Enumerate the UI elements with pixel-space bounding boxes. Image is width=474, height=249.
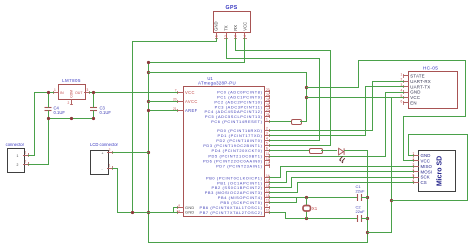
svg-text:ATmega328P-PU: ATmega328P-PU bbox=[198, 81, 236, 86]
wire SD MISO (horizontal) bbox=[280, 166, 414, 168]
GPS connector SV1 box bbox=[214, 12, 251, 33]
wire SD GND loop left (vertical) bbox=[408, 134, 410, 156]
svg-text:12: 12 bbox=[266, 157, 270, 161]
svg-text:1: 1 bbox=[25, 151, 27, 155]
Micro SD pin 3 stub bbox=[413, 166, 419, 168]
junction LCD pin2 bbox=[147, 151, 150, 154]
U1 pin 27 stub bbox=[264, 111, 270, 113]
capacitor C3 symbol bbox=[90, 108, 97, 111]
wire +5V right vertical bbox=[306, 72, 308, 122]
wire LM7805 IN (horizontal) bbox=[34, 92, 54, 94]
junction GND rail left bbox=[147, 211, 150, 214]
wire U1 PB3 (horizontal) bbox=[269, 192, 298, 194]
svg-text:22uF: 22uF bbox=[356, 189, 366, 194]
capacitor C2 lead bbox=[361, 218, 368, 220]
svg-text:GND: GND bbox=[214, 21, 219, 30]
svg-text:4: 4 bbox=[243, 35, 247, 37]
svg-text:PB7 (PCINT7XTAL2TOSC2): PB7 (PCINT7XTAL2TOSC2) bbox=[199, 210, 262, 215]
wire +5V to loop (horizontal) bbox=[306, 87, 359, 89]
capacitor C3 leads bbox=[93, 92, 95, 119]
HC-05 pin 2 stub bbox=[403, 81, 409, 83]
wire LM7805 OUT to U1 VCC (horizontal +5V) bbox=[89, 92, 178, 94]
svg-text:LM7805: LM7805 bbox=[62, 78, 81, 83]
Micro SD card module box bbox=[419, 151, 456, 192]
svg-text:SCK: SCK bbox=[421, 175, 430, 180]
wire LCD pin1 to GND rail (vertical) bbox=[117, 168, 119, 213]
wire GND rail upper (horizontal) bbox=[117, 212, 178, 214]
Micro SD pin 1 stub bbox=[413, 155, 419, 157]
U1 pin 9 stub bbox=[264, 207, 270, 209]
svg-text:STATE: STATE bbox=[410, 74, 425, 79]
junction C3 top on +5V bbox=[92, 91, 95, 94]
svg-text:VCC: VCC bbox=[421, 158, 430, 163]
svg-text:3: 3 bbox=[87, 88, 89, 92]
junction +5V right b bbox=[305, 96, 308, 99]
svg-text:RX: RX bbox=[233, 25, 238, 31]
connector pin 2 stub bbox=[23, 164, 29, 166]
wire HC-05 UART-TX (horizontal) bbox=[365, 86, 404, 88]
bluetooth module HC-05 box bbox=[409, 72, 458, 109]
wire GPS TX (horizontal) bbox=[226, 58, 320, 60]
U1 pin 24 stub bbox=[264, 96, 270, 98]
svg-text:5: 5 bbox=[413, 174, 415, 178]
wire U1 PB1 (horizontal) bbox=[269, 182, 287, 184]
wire CS (vertical) bbox=[297, 182, 299, 193]
wire MOSI (vertical) bbox=[286, 171, 288, 183]
GPS pin 1 stub bbox=[216, 32, 218, 39]
HC-05 pin 5 stub bbox=[403, 97, 409, 99]
LED D1 bbox=[339, 148, 345, 163]
wire resistor R1 to +5V bbox=[300, 121, 307, 123]
junction GND bus corner bbox=[366, 231, 369, 234]
capacitor C1 symbol bbox=[358, 194, 362, 201]
svg-text:28: 28 bbox=[266, 113, 270, 117]
wire LED cathode (horizontal) bbox=[344, 150, 368, 152]
svg-text:2: 2 bbox=[17, 163, 19, 167]
svg-text:1: 1 bbox=[266, 118, 268, 122]
wire U1 PD2 (horizontal) bbox=[269, 140, 320, 142]
wire SD GND (horizontal) bbox=[408, 155, 414, 157]
svg-text:5: 5 bbox=[266, 142, 268, 146]
U1 pin 16 stub bbox=[264, 187, 270, 189]
wire U1 PD3 (horizontal) bbox=[269, 145, 331, 147]
wire U1 pin22 GND (horizontal) bbox=[173, 212, 178, 214]
U1 pin 25 stub bbox=[264, 101, 270, 103]
svg-text:2: 2 bbox=[266, 127, 268, 131]
svg-text:CS: CS bbox=[421, 180, 427, 185]
capacitor C4 leads bbox=[48, 92, 50, 119]
svg-text:+: + bbox=[102, 151, 104, 155]
wire U1 pin8 GND (vertical) bbox=[173, 207, 175, 213]
svg-text:27: 27 bbox=[266, 108, 270, 112]
HC-05 pin 3 stub bbox=[403, 86, 409, 88]
GPS pin 2 stub bbox=[226, 32, 228, 39]
svg-text:TX: TX bbox=[224, 25, 229, 31]
U1 pin 28 stub bbox=[264, 116, 270, 118]
U1 pin 23 stub bbox=[264, 91, 270, 93]
U1 pin 8 stub bbox=[177, 207, 184, 209]
svg-text:23: 23 bbox=[266, 88, 270, 92]
U1 pin 6 stub bbox=[264, 150, 270, 152]
svg-text:1: 1 bbox=[401, 72, 403, 76]
svg-text:2: 2 bbox=[109, 148, 111, 152]
wire LCD pin2 (horizontal) bbox=[112, 152, 149, 154]
svg-text:EN: EN bbox=[410, 101, 417, 106]
svg-text:GND: GND bbox=[185, 210, 195, 215]
wire U1 PD4 to resistor bbox=[269, 150, 310, 152]
wire +5V loop top (horizontal) bbox=[358, 60, 466, 62]
svg-text:11: 11 bbox=[266, 152, 270, 156]
svg-text:VCC: VCC bbox=[185, 90, 195, 95]
wire SD GND loop right (vertical) bbox=[467, 134, 469, 201]
svg-text:LCD connector: LCD connector bbox=[90, 142, 119, 147]
U1 pin 11 stub bbox=[264, 156, 270, 158]
capacitor C1 lead bbox=[361, 197, 368, 199]
wire HC-05 GND (horizontal) bbox=[385, 92, 404, 94]
svg-text:4: 4 bbox=[401, 89, 403, 93]
svg-text:22uF: 22uF bbox=[356, 209, 366, 214]
wire GND bus (horizontal right) bbox=[391, 200, 468, 202]
svg-text:0.1UF: 0.1UF bbox=[100, 110, 112, 115]
Micro SD pin 6 stub bbox=[413, 182, 419, 184]
svg-text:2: 2 bbox=[224, 35, 228, 37]
svg-text:UART-RX: UART-RX bbox=[410, 79, 431, 84]
wire GND bottom rail (horizontal) bbox=[148, 242, 368, 244]
wire LM7805 GND rail (horizontal) bbox=[48, 118, 94, 120]
wire XTAL2 (vertical) bbox=[285, 212, 287, 219]
svg-text:2: 2 bbox=[25, 160, 27, 164]
LM7805 pin 3 (OUT) stub bbox=[84, 92, 90, 94]
svg-text:4: 4 bbox=[266, 137, 268, 141]
U1 pin 10 stub bbox=[264, 212, 270, 214]
wire +5V to HC-05 VCC (horizontal) bbox=[306, 97, 404, 99]
U1 pin 14 stub bbox=[264, 177, 270, 179]
junction crystal bottom bbox=[305, 217, 308, 220]
svg-text:MOSI: MOSI bbox=[421, 169, 433, 174]
svg-text:HC-05: HC-05 bbox=[423, 65, 438, 71]
wire HC-05 VCC net vertical bbox=[391, 97, 393, 233]
voltage regulator LM7805 U2 box bbox=[59, 85, 86, 100]
svg-text:25: 25 bbox=[266, 98, 270, 102]
wire U1 PD5 (horizontal) bbox=[269, 156, 386, 158]
U1 pin 13 stub bbox=[264, 165, 270, 167]
svg-text:-: - bbox=[102, 167, 103, 171]
capacitor C4 symbol bbox=[45, 108, 52, 111]
svg-text:UART-TX: UART-TX bbox=[410, 84, 430, 89]
junction bus branch bbox=[147, 71, 150, 74]
wire U1 AREF (horizontal) bbox=[148, 110, 178, 112]
U1 pin 5 stub bbox=[264, 145, 270, 147]
wire +5V loop up bbox=[358, 60, 360, 88]
U1 pin 4 stub bbox=[264, 140, 270, 142]
svg-text:IN: IN bbox=[60, 91, 64, 95]
svg-text:PD4 (PCINT20XCKT0): PD4 (PCINT20XCKT0) bbox=[212, 148, 263, 153]
wire SD MOSI (horizontal) bbox=[286, 171, 414, 173]
wire XTAL2 net (horizontal) bbox=[285, 218, 357, 220]
junction AREF bbox=[147, 109, 150, 112]
U1 pin 1 stub bbox=[264, 121, 270, 123]
U1 pin 21 stub bbox=[177, 110, 184, 112]
wire U1 PD1 TXD (horizontal) bbox=[269, 135, 366, 137]
LCD connector pin 2 stub bbox=[107, 152, 113, 154]
svg-text:10: 10 bbox=[266, 209, 270, 213]
LCD connector pin 1 stub bbox=[107, 168, 113, 170]
Micro SD pin 5 stub bbox=[413, 177, 419, 179]
wire LCD pin1 (horizontal) bbox=[112, 168, 118, 170]
wire SD CS (horizontal) bbox=[297, 182, 414, 184]
resistor R1 (reset pullup) bbox=[292, 120, 302, 125]
svg-text:3: 3 bbox=[234, 35, 238, 37]
wire SD GND loop top (horizontal) bbox=[408, 134, 468, 136]
U1 pin 2 stub bbox=[264, 130, 270, 132]
wire GPS GND (horizontal) bbox=[132, 41, 217, 43]
connector pin 1 stub bbox=[23, 155, 29, 157]
connector J1 box bbox=[8, 149, 25, 173]
junction C4 bottom bbox=[47, 117, 50, 120]
wire GPS RX down bbox=[235, 38, 237, 51]
svg-text:GND: GND bbox=[421, 153, 431, 158]
wire U1 pin8 GND (horizontal) bbox=[173, 207, 178, 209]
wire GPS RX to U1 PD3 (vertical) bbox=[330, 50, 332, 146]
svg-text:GPS: GPS bbox=[226, 5, 238, 11]
svg-text:2: 2 bbox=[68, 101, 70, 105]
wire SD SCK (horizontal) bbox=[291, 177, 414, 179]
wire U1 PD0 RXD (horizontal) bbox=[269, 130, 373, 132]
wire GPS RX (horizontal) bbox=[235, 50, 331, 52]
U1 pin 12 stub bbox=[264, 160, 270, 162]
U1 pin 20 stub bbox=[177, 101, 184, 103]
svg-text:6: 6 bbox=[266, 147, 268, 151]
svg-text:VCC: VCC bbox=[410, 95, 420, 100]
wire HC-05 UART-RX (horizontal) bbox=[372, 81, 404, 83]
svg-text:26: 26 bbox=[266, 103, 270, 107]
junction C4 top on +5V bbox=[47, 91, 50, 94]
U1 pin 26 stub bbox=[264, 106, 270, 108]
junction C2 right bbox=[366, 217, 369, 220]
wire +5V branch (horizontal) bbox=[148, 72, 307, 74]
wire main bus vertical bbox=[148, 62, 150, 243]
wire U1 PB2 (horizontal) bbox=[269, 187, 292, 189]
U1 pin 22 stub bbox=[177, 212, 184, 214]
svg-text:13: 13 bbox=[266, 162, 270, 166]
wire connector pin1 to LM7805 IN (vertical) bbox=[34, 92, 36, 156]
svg-text:24: 24 bbox=[266, 93, 270, 97]
wire GPS VCC (horizontal +5V) bbox=[148, 62, 245, 64]
svg-text:AVCC: AVCC bbox=[185, 99, 198, 104]
junction AVCC bbox=[147, 100, 150, 103]
junction C1 right bbox=[366, 196, 369, 199]
svg-text:COM: COM bbox=[70, 90, 74, 98]
U1 pin 17 stub bbox=[264, 192, 270, 194]
wire GPS TX to U1 PD2 (vertical) bbox=[319, 58, 321, 141]
U1 pin 19 stub bbox=[264, 202, 270, 204]
svg-text:9: 9 bbox=[266, 204, 268, 208]
wire HC-05 GND (vertical) bbox=[385, 92, 387, 157]
junction C3 bottom bbox=[92, 117, 95, 120]
wire C4 GND (vertical) bbox=[48, 118, 50, 165]
wire GND bus (horizontal mid) bbox=[367, 232, 392, 234]
wire GPS GND down bbox=[216, 38, 218, 42]
svg-text:PC6 (PCINT14RESET): PC6 (PCINT14RESET) bbox=[211, 119, 262, 124]
LCD connector J2 box bbox=[91, 151, 109, 175]
Micro SD pin 2 stub bbox=[413, 160, 419, 162]
wire connector pin1 (horizontal) bbox=[28, 155, 35, 157]
wire HC-05 UART-TX (vertical) bbox=[365, 86, 367, 136]
GPS pin 3 stub bbox=[235, 32, 237, 39]
svg-text:1: 1 bbox=[54, 88, 56, 92]
junction LM7805 COM bottom bbox=[70, 117, 73, 120]
wire connector pin2 to C4 GND (horizontal) bbox=[28, 164, 49, 166]
wire +5V loop right down bbox=[465, 60, 467, 117]
wire U1 AVCC (horizontal) bbox=[148, 101, 178, 103]
svg-text:OUT: OUT bbox=[75, 91, 83, 95]
crystal X1 bbox=[303, 198, 311, 220]
wire resistor R2 to LED bbox=[321, 150, 337, 152]
svg-text:AREF: AREF bbox=[185, 108, 198, 113]
U1 pin 18 stub bbox=[264, 197, 270, 199]
svg-text:6: 6 bbox=[401, 99, 403, 103]
wire U1 PB7 XTAL2 (horizontal) bbox=[269, 212, 286, 214]
wire U1 PB5 jog (horizontal) bbox=[269, 202, 297, 204]
svg-text:1: 1 bbox=[109, 164, 111, 168]
svg-text:0.1UF: 0.1UF bbox=[54, 110, 66, 115]
svg-text:VCC: VCC bbox=[242, 22, 247, 31]
svg-text:X1: X1 bbox=[312, 206, 318, 211]
Micro SD pin 4 stub bbox=[413, 171, 419, 173]
wire GPS GND (vertical to GND rail) bbox=[132, 41, 134, 213]
svg-text:3: 3 bbox=[266, 132, 268, 136]
U1 pin 3 stub bbox=[264, 135, 270, 137]
U1 pin 7 stub bbox=[177, 92, 184, 94]
wire U1 PB0 (horizontal) bbox=[269, 177, 281, 179]
wire +5V to SD VCC (vertical) bbox=[403, 116, 405, 161]
wire +5V loop bottom (horizontal) bbox=[403, 116, 466, 118]
svg-text:7: 7 bbox=[175, 89, 177, 93]
wire GPS VCC down bbox=[244, 38, 246, 63]
wire HC-05 UART-RX (vertical) bbox=[372, 81, 374, 131]
LM7805 pin 2 (COM) stub bbox=[71, 99, 73, 105]
resistor R2 (LED series) bbox=[310, 149, 323, 154]
wire PB5 jog (vertical) bbox=[296, 197, 298, 203]
wire SCK (vertical) bbox=[291, 177, 293, 188]
wire GPS TX down bbox=[226, 38, 228, 59]
svg-text:MISO: MISO bbox=[421, 164, 433, 169]
svg-text:Micro SD: Micro SD bbox=[437, 156, 444, 186]
junction GND bus right bbox=[390, 199, 393, 202]
microcontroller U1 ATmega328P-PU box bbox=[184, 87, 265, 217]
svg-text:connector: connector bbox=[6, 142, 25, 147]
U1 pin 15 stub bbox=[264, 182, 270, 184]
capacitor C2 symbol bbox=[358, 215, 362, 222]
svg-text:GND: GND bbox=[410, 90, 420, 95]
LM7805 pin 1 (IN) stub bbox=[53, 92, 59, 94]
junction crystal top bbox=[305, 196, 308, 199]
wire LED to GND bus (vertical) bbox=[367, 150, 369, 243]
svg-text:PD7 (PCINT23AIN1): PD7 (PCINT23AIN1) bbox=[216, 163, 263, 168]
wire MISO (vertical) bbox=[280, 166, 282, 178]
wire SD VCC (horizontal) bbox=[403, 160, 414, 162]
HC-05 pin 1 stub bbox=[403, 75, 409, 77]
HC-05 pin 4 stub bbox=[403, 92, 409, 94]
GPS pin 4 stub bbox=[244, 32, 246, 39]
HC-05 pin 6 stub bbox=[403, 102, 409, 104]
junction +5V right a bbox=[305, 86, 308, 89]
svg-text:1: 1 bbox=[214, 35, 218, 37]
wire U1 RESET to resistor bbox=[269, 121, 292, 123]
junction GPS GND on rail bbox=[131, 211, 134, 214]
wire U1 PB4 XTAL1 (horizontal) bbox=[269, 197, 357, 199]
junction bus top corner bbox=[147, 61, 150, 64]
svg-text:1: 1 bbox=[17, 154, 19, 158]
